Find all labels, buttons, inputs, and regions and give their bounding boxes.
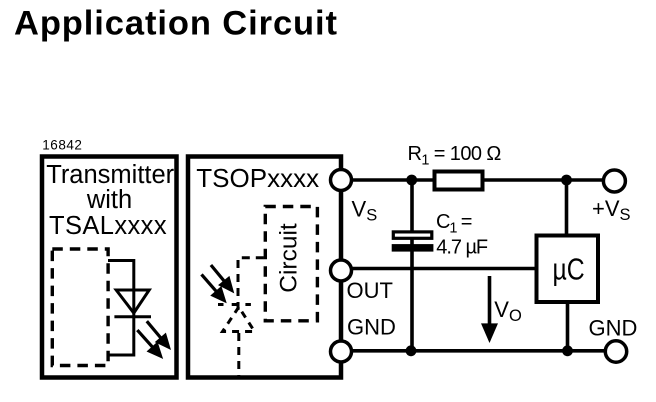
VO output arrow bbox=[481, 276, 498, 343]
wire LED loop bbox=[108, 261, 134, 356]
microcontroller uC box bbox=[537, 236, 599, 303]
junction dot R1/+VS bbox=[561, 175, 572, 186]
junction dot C1/GND bbox=[406, 345, 417, 356]
svg-text:TSALxxxx: TSALxxxx bbox=[49, 212, 167, 240]
svg-text:GND: GND bbox=[347, 315, 396, 340]
svg-text:TSOPxxxx: TSOPxxxx bbox=[196, 163, 319, 193]
+VS supply terminal bbox=[603, 170, 625, 192]
transmitter box bbox=[42, 157, 177, 378]
svg-text:Application Circuit: Application Circuit bbox=[14, 4, 338, 42]
junction dot VS/R1 bbox=[406, 175, 417, 186]
photodiode D2 (dashed detector diode) bbox=[218, 305, 255, 332]
svg-text:µC: µC bbox=[553, 252, 585, 286]
resistor R1 bbox=[435, 172, 483, 190]
svg-text:with: with bbox=[86, 186, 132, 214]
wire uC bottom to GND rail bbox=[566, 302, 570, 351]
junction dot uC/GND bbox=[562, 345, 573, 356]
wire OUT horizontal bbox=[341, 267, 537, 271]
wire C1 vertical bbox=[410, 180, 414, 351]
circuit block dashed box bbox=[265, 207, 317, 321]
LED emission arrow 2 bbox=[137, 330, 162, 358]
capacitor C1 top plate bbox=[393, 232, 432, 238]
LED D1 (TSAL emitter diode) bbox=[114, 290, 151, 317]
svg-text:16842: 16842 bbox=[42, 138, 82, 153]
photodiode bottom dashed lead bbox=[237, 333, 240, 376]
transmitter dashed module box bbox=[52, 249, 108, 366]
IR input arrow 2 bbox=[202, 274, 226, 302]
transmitter label bbox=[46, 161, 174, 240]
svg-text:Circuit: Circuit bbox=[276, 223, 303, 293]
wire VS top rail bbox=[341, 178, 604, 182]
pin OUT terminal bbox=[331, 260, 352, 281]
pin VS terminal bbox=[331, 170, 352, 191]
wire junction to uC top bbox=[565, 180, 569, 236]
svg-text:OUT: OUT bbox=[347, 278, 393, 303]
svg-text:GND: GND bbox=[589, 316, 638, 341]
wire GND bottom rail bbox=[341, 349, 606, 353]
IR input arrow 1 bbox=[211, 265, 233, 292]
TSOP receiver box bbox=[188, 157, 341, 378]
photodiode top dashed lead bbox=[238, 258, 265, 310]
LED emission arrow 1 bbox=[147, 321, 170, 348]
svg-text:4.7 µF: 4.7 µF bbox=[436, 237, 488, 259]
GND supply terminal bbox=[605, 341, 626, 362]
pin GND terminal bbox=[331, 341, 352, 362]
capacitor C1 bottom plate bbox=[392, 244, 434, 252]
